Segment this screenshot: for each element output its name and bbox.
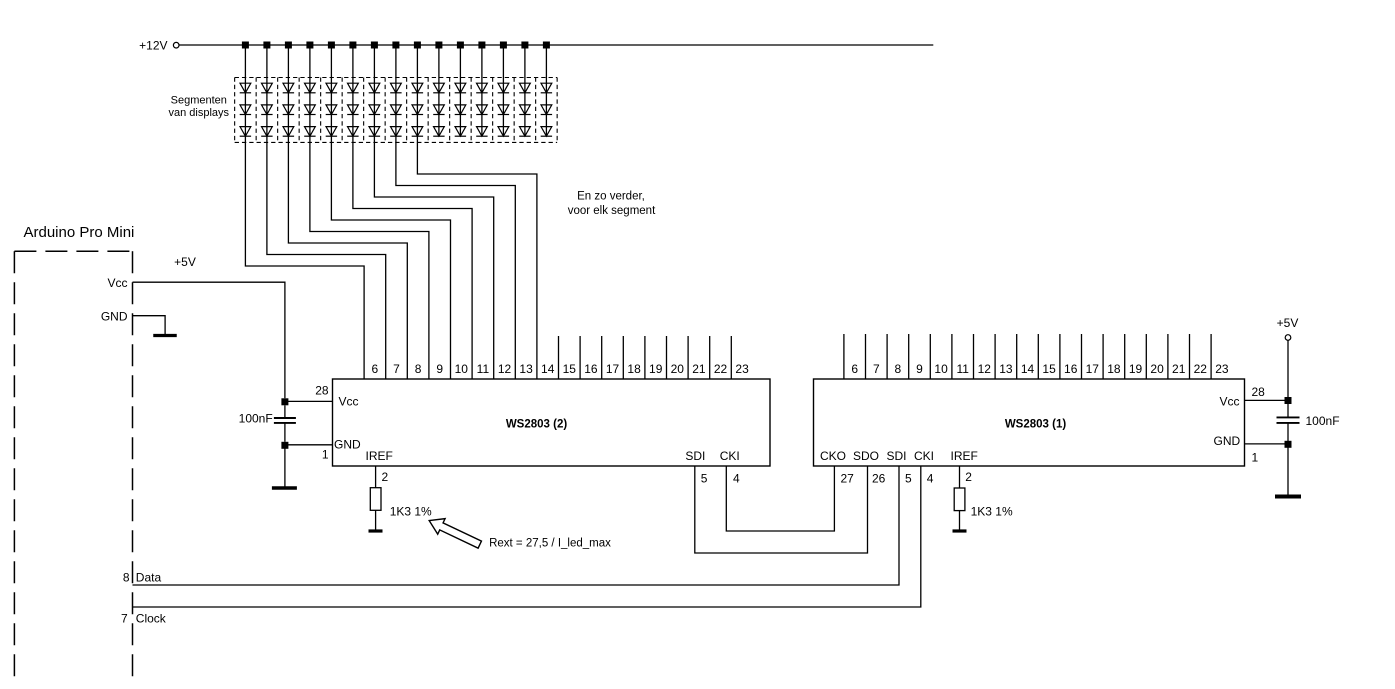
svg-text:1K3 1%: 1K3 1% xyxy=(971,505,1013,519)
pin 21 stub (WS2803 (1)) xyxy=(1167,334,1169,379)
wire: +12V rail down through LED string 7 xyxy=(373,45,375,143)
LED D1.1 xyxy=(240,83,251,93)
wire: U2 IREF pin 2 xyxy=(375,466,377,488)
svg-text:1: 1 xyxy=(1252,451,1259,465)
wire: LED string 7 to WS2803 (2) pin 12 xyxy=(374,142,493,379)
LED D8.2 xyxy=(390,105,401,115)
svg-text:23: 23 xyxy=(735,362,749,376)
svg-text:19: 19 xyxy=(1129,362,1143,376)
wire: Clock from Arduino pin 7 to U1 CKI pin 4 xyxy=(133,466,921,607)
junction J10 on +12V rail xyxy=(435,42,442,49)
LED D13.3 xyxy=(498,127,509,137)
wire: +12V rail down through LED string 15 xyxy=(545,45,547,136)
wire: +12V rail down through LED string 4 xyxy=(309,45,311,143)
svg-text:SDI: SDI xyxy=(685,449,705,463)
junction J13 on +12V rail xyxy=(500,42,507,49)
wire: cap C2 down to ground xyxy=(284,445,286,486)
wire: +12V rail down through LED string 3 xyxy=(287,45,289,143)
wire: R2 to ground xyxy=(375,510,377,529)
wire: +12V rail down through LED string 11 xyxy=(459,45,461,136)
svg-text:22: 22 xyxy=(1194,362,1208,376)
junction J15 on +12V rail xyxy=(543,42,550,49)
LED D9.3 xyxy=(412,127,423,137)
svg-text:7: 7 xyxy=(393,362,400,376)
svg-text:17: 17 xyxy=(1086,362,1100,376)
junction J6 on +12V rail xyxy=(349,42,356,49)
junction J1 on +12V rail xyxy=(242,42,249,49)
svg-text:+5V: +5V xyxy=(174,255,196,269)
junction J2 on +12V rail xyxy=(263,42,270,49)
svg-text:Vcc: Vcc xyxy=(339,395,359,409)
pin 21 stub (WS2803 (2)) xyxy=(687,336,689,379)
svg-text:10: 10 xyxy=(934,362,948,376)
svg-text:23: 23 xyxy=(1215,362,1229,376)
LED D15.1 xyxy=(541,83,552,93)
module: Arduino Pro Mini dashed outline xyxy=(14,251,132,683)
wire: LED string 6 to WS2803 (2) pin 11 xyxy=(353,142,472,379)
dashed enclosure: display segment boxes xyxy=(235,78,558,143)
LED D15.3 xyxy=(541,127,552,137)
svg-text:voor elk segment: voor elk segment xyxy=(568,205,656,217)
svg-text:21: 21 xyxy=(1172,362,1186,376)
junction: GND at U2 pin 1 xyxy=(281,442,288,449)
svg-text:16: 16 xyxy=(584,362,598,376)
wire: +12V rail down through LED string 10 xyxy=(438,45,440,136)
wire: +12V rail down through LED string 1 xyxy=(244,45,246,143)
svg-text:7: 7 xyxy=(121,612,128,626)
wire: LED string 4 to WS2803 (2) pin 9 xyxy=(310,142,429,379)
svg-text:100nF: 100nF xyxy=(239,412,273,426)
op IC U1: WS2803 (1) body xyxy=(814,379,1245,466)
junction: +5V at U2 pin 28 xyxy=(281,398,288,405)
wire: +12V rail down through LED string 5 xyxy=(330,45,332,143)
pin 20 stub (WS2803 (1)) xyxy=(1145,334,1147,379)
svg-text:18: 18 xyxy=(627,362,641,376)
svg-text:5: 5 xyxy=(905,472,912,486)
wire: +12V rail down through LED string 13 xyxy=(502,45,504,136)
LED D12.3 xyxy=(476,127,487,137)
wire: +12V rail down through LED string 9 xyxy=(416,45,418,143)
svg-text:Segmenten: Segmenten xyxy=(171,95,227,107)
LED D10.1 xyxy=(433,83,444,93)
wire: R1 to ground xyxy=(959,511,961,530)
pin 7 stub (WS2803 (1)) xyxy=(865,334,867,379)
pin 15 stub (WS2803 (1)) xyxy=(1037,334,1039,379)
svg-text:15: 15 xyxy=(1042,362,1056,376)
LED D1.3 xyxy=(240,127,251,137)
svg-text:Rext = 27,5 / I_led_max: Rext = 27,5 / I_led_max xyxy=(489,538,611,550)
svg-text:20: 20 xyxy=(671,362,685,376)
svg-text:22: 22 xyxy=(714,362,728,376)
LED D3.1 xyxy=(283,83,294,93)
label: Segmenten van displays xyxy=(169,95,230,120)
svg-text:SDO: SDO xyxy=(853,449,879,463)
wire: +5V to cap C1 xyxy=(1287,340,1289,398)
svg-text:12: 12 xyxy=(978,362,992,376)
junction J14 on +12V rail xyxy=(521,42,528,49)
wire: U2 CKI pin 4 to U1 CKO pin 27 xyxy=(726,466,834,531)
resistor R1 1K3 1% xyxy=(954,488,965,511)
svg-text:Vcc: Vcc xyxy=(1219,395,1239,409)
LED D12.1 xyxy=(476,83,487,93)
LED D11.1 xyxy=(455,83,466,93)
junction J3 on +12V rail xyxy=(285,42,292,49)
pin 20 stub (WS2803 (2)) xyxy=(666,336,668,379)
wire: LED string 3 to WS2803 (2) pin 8 xyxy=(288,142,407,379)
LED D2.2 xyxy=(261,105,272,115)
svg-text:20: 20 xyxy=(1150,362,1164,376)
LED D5.2 xyxy=(326,105,337,115)
ground symbol (R2) xyxy=(369,529,383,532)
LED D1.2 xyxy=(240,105,251,115)
svg-text:CKI: CKI xyxy=(914,449,934,463)
pin 15 stub (WS2803 (2)) xyxy=(558,336,560,379)
LED D12.2 xyxy=(476,105,487,115)
pin 8 stub (WS2803 (1)) xyxy=(886,334,888,379)
LED D14.1 xyxy=(519,83,530,93)
svg-text:26: 26 xyxy=(872,472,886,486)
LED D11.3 xyxy=(455,127,466,137)
LED D10.3 xyxy=(433,127,444,137)
wire: cap C1 down to ground xyxy=(1287,444,1289,494)
pin 11 stub (WS2803 (1)) xyxy=(951,334,953,379)
svg-text:+12V: +12V xyxy=(139,39,167,53)
svg-text:15: 15 xyxy=(563,362,577,376)
ground symbol (R1) xyxy=(953,529,967,532)
junction: GND at U1 pin 1 xyxy=(1285,441,1292,448)
svg-text:10: 10 xyxy=(455,362,469,376)
LED D2.3 xyxy=(261,127,272,137)
svg-text:Clock: Clock xyxy=(136,612,167,626)
wire: U1 GND pin 1 to node xyxy=(1245,443,1289,445)
svg-text:28: 28 xyxy=(315,384,329,398)
pin 19 stub (WS2803 (2)) xyxy=(644,336,646,379)
svg-text:6: 6 xyxy=(372,362,379,376)
annotation arrow xyxy=(426,513,484,553)
wire: U2 SDI pin 5 to U1 SDO pin 26 xyxy=(695,466,868,553)
LED D8.1 xyxy=(390,83,401,93)
svg-text:4: 4 xyxy=(927,472,934,486)
pin 13 stub (WS2803 (1)) xyxy=(994,334,996,379)
svg-text:5: 5 xyxy=(701,472,708,486)
svg-text:WS2803 (2): WS2803 (2) xyxy=(506,419,568,431)
svg-text:CKI: CKI xyxy=(720,449,740,463)
svg-text:GND: GND xyxy=(334,437,361,451)
svg-text:van displays: van displays xyxy=(169,107,230,119)
svg-text:12: 12 xyxy=(498,362,512,376)
svg-text:21: 21 xyxy=(692,362,706,376)
wire: +12V rail down through LED string 14 xyxy=(524,45,526,136)
svg-text:13: 13 xyxy=(519,362,533,376)
svg-text:CKO: CKO xyxy=(820,449,846,463)
LED D2.1 xyxy=(261,83,272,93)
wire: +12V rail down through LED string 12 xyxy=(481,45,483,136)
wire: node to U2 GND pin 1 xyxy=(285,444,333,446)
svg-text:2: 2 xyxy=(382,470,389,484)
junction J8 on +12V rail xyxy=(392,42,399,49)
svg-text:+5V: +5V xyxy=(1277,316,1299,330)
LED D6.3 xyxy=(347,127,358,137)
svg-text:13: 13 xyxy=(999,362,1013,376)
pin 10 stub (WS2803 (1)) xyxy=(929,334,931,379)
svg-text:27: 27 xyxy=(841,472,855,486)
pin 12 stub (WS2803 (1)) xyxy=(973,334,975,379)
capacitor C1 100nF xyxy=(1277,404,1300,441)
svg-text:GND: GND xyxy=(1214,434,1241,448)
wire: +12V rail down through LED string 6 xyxy=(352,45,354,143)
resistor R2 1K3 1% xyxy=(370,488,381,511)
svg-text:9: 9 xyxy=(916,362,923,376)
svg-text:14: 14 xyxy=(1021,362,1035,376)
wire: LED string 1 to WS2803 (2) pin 6 xyxy=(245,142,364,379)
node +12V : supply terminal xyxy=(139,39,179,53)
svg-text:7: 7 xyxy=(873,362,880,376)
node +5V (right) xyxy=(1277,316,1299,340)
LED D5.1 xyxy=(326,83,337,93)
op IC U2: WS2803 (2) body xyxy=(333,379,771,466)
LED D13.1 xyxy=(498,83,509,93)
svg-text:2: 2 xyxy=(965,470,972,484)
pin 16 stub (WS2803 (1)) xyxy=(1059,334,1061,379)
wire: +12V rail down through LED string 8 xyxy=(395,45,397,143)
pin 18 stub (WS2803 (2)) xyxy=(622,336,624,379)
svg-text:1: 1 xyxy=(322,448,329,462)
junction: +5V at U1 pin 28 xyxy=(1285,397,1292,404)
svg-text:6: 6 xyxy=(851,362,858,376)
wire: node to U2 Vcc pin 28 xyxy=(285,400,333,402)
pin 23 stub (WS2803 (1)) xyxy=(1210,334,1212,379)
pin 16 stub (WS2803 (2)) xyxy=(579,336,581,379)
label: En zo verder, voor elk segment xyxy=(568,191,656,218)
wire: LED string 8 to WS2803 (2) pin 13 xyxy=(396,142,515,379)
svg-text:1K3 1%: 1K3 1% xyxy=(390,505,432,519)
LED D4.1 xyxy=(304,83,315,93)
LED D13.2 xyxy=(498,105,509,115)
junction J7 on +12V rail xyxy=(371,42,378,49)
LED D15.2 xyxy=(541,105,552,115)
svg-text:18: 18 xyxy=(1107,362,1121,376)
svg-text:Arduino Pro Mini: Arduino Pro Mini xyxy=(24,224,135,241)
svg-text:IREF: IREF xyxy=(951,449,978,463)
svg-text:9: 9 xyxy=(436,362,443,376)
LED D10.2 xyxy=(433,105,444,115)
svg-text:4: 4 xyxy=(733,472,740,486)
LED D7.3 xyxy=(369,127,380,137)
svg-text:8: 8 xyxy=(415,362,422,376)
svg-text:Vcc: Vcc xyxy=(107,276,127,290)
LED D4.3 xyxy=(304,127,315,137)
ground symbol (Arduino GND) xyxy=(153,334,177,337)
wire: LED string 9 to WS2803 (2) pin 14 xyxy=(417,142,537,379)
svg-text:SDI: SDI xyxy=(887,449,907,463)
svg-text:8: 8 xyxy=(123,571,130,585)
svg-text:11: 11 xyxy=(956,362,969,376)
pin 14 stub (WS2803 (1)) xyxy=(1016,334,1018,379)
wire: +12V rail xyxy=(179,44,933,46)
wire: U1 Vcc pin 28 to node xyxy=(1245,399,1289,401)
svg-text:14: 14 xyxy=(541,362,555,376)
ground symbol (C2) xyxy=(272,486,297,489)
junction J11 on +12V rail xyxy=(457,42,464,49)
LED D11.2 xyxy=(455,105,466,115)
junction J12 on +12V rail xyxy=(478,42,485,49)
LED D7.1 xyxy=(369,83,380,93)
LED D3.2 xyxy=(283,105,294,115)
wire: LED string 5 to WS2803 (2) pin 10 xyxy=(331,142,450,379)
svg-text:11: 11 xyxy=(477,362,490,376)
svg-text:28: 28 xyxy=(1252,385,1266,399)
svg-text:8: 8 xyxy=(895,362,902,376)
LED D6.2 xyxy=(347,105,358,115)
svg-text:GND: GND xyxy=(101,310,128,324)
svg-text:19: 19 xyxy=(649,362,663,376)
svg-text:Data: Data xyxy=(136,571,162,585)
pin 22 stub (WS2803 (2)) xyxy=(709,336,711,379)
LED D7.2 xyxy=(369,105,380,115)
wire: LED string 2 to WS2803 (2) pin 7 xyxy=(267,142,386,379)
pin 22 stub (WS2803 (1)) xyxy=(1189,334,1191,379)
junction J5 on +12V rail xyxy=(328,42,335,49)
pin 23 stub (WS2803 (2)) xyxy=(730,336,732,379)
pin 19 stub (WS2803 (1)) xyxy=(1124,334,1126,379)
svg-text:17: 17 xyxy=(606,362,620,376)
LED D5.3 xyxy=(326,127,337,137)
wire: Arduino GND to ground xyxy=(133,316,166,334)
wire: U1 IREF pin 2 xyxy=(959,466,961,488)
pin 9 stub (WS2803 (1)) xyxy=(908,334,910,379)
wire: Data from Arduino pin 8 to U1 SDI pin 5 xyxy=(133,466,900,585)
pin 18 stub (WS2803 (1)) xyxy=(1102,334,1104,379)
capacitor C2 100nF xyxy=(274,405,296,442)
LED D3.3 xyxy=(283,127,294,137)
LED D4.2 xyxy=(304,105,315,115)
wire: +12V rail down through LED string 2 xyxy=(266,45,268,143)
svg-text:WS2803 (1): WS2803 (1) xyxy=(1005,419,1067,431)
junction J4 on +12V rail xyxy=(306,42,313,49)
LED D9.1 xyxy=(412,83,423,93)
LED D9.2 xyxy=(412,105,423,115)
LED D14.2 xyxy=(519,105,530,115)
junction J9 on +12V rail xyxy=(414,42,421,49)
LED D8.3 xyxy=(390,127,401,137)
pin 17 stub (WS2803 (1)) xyxy=(1081,334,1083,379)
svg-text:16: 16 xyxy=(1064,362,1078,376)
LED D6.1 xyxy=(347,83,358,93)
LED D14.3 xyxy=(519,127,530,137)
svg-text:100nF: 100nF xyxy=(1306,414,1340,428)
svg-text:IREF: IREF xyxy=(366,449,393,463)
svg-text:En zo verder,: En zo verder, xyxy=(577,191,645,203)
pin 6 stub (WS2803 (1)) xyxy=(843,334,845,379)
wire: Arduino Vcc to decoupling node xyxy=(133,282,285,398)
pin 17 stub (WS2803 (2)) xyxy=(601,336,603,379)
ground symbol (C1) xyxy=(1275,495,1301,499)
